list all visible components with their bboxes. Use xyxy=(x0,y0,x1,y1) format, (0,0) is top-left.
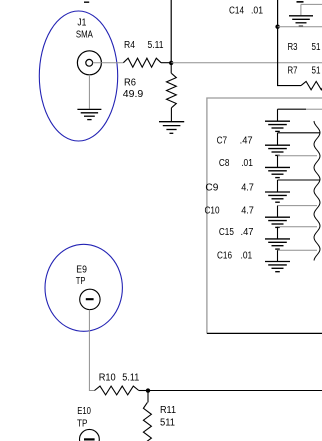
svg-text:.47: .47 xyxy=(240,136,253,147)
junction node top right xyxy=(275,25,279,29)
junction node at R4 xyxy=(169,61,173,65)
svg-text:E10: E10 xyxy=(77,406,91,417)
capacitor C8 xyxy=(278,156,318,168)
capacitor C15 label xyxy=(219,227,254,238)
svg-text:4.7: 4.7 xyxy=(241,206,254,217)
tear squiggle xyxy=(314,121,320,261)
resistor R10 label xyxy=(99,373,140,384)
resistor R6 label xyxy=(123,77,144,100)
resistor R11 xyxy=(143,391,151,441)
capacitor C9 xyxy=(278,180,320,192)
resistor R4 xyxy=(123,58,161,67)
ground C10 xyxy=(265,217,290,227)
capacitor C14 plate remnant xyxy=(297,1,304,3)
ground stub C14 xyxy=(300,4,302,15)
ground C16 xyxy=(265,262,290,272)
wire J1 to R4 xyxy=(93,62,124,64)
ground top of bank xyxy=(265,121,290,131)
ground C7 xyxy=(265,145,290,155)
capacitor C7 label xyxy=(217,136,253,147)
highlight ellipse around E9 xyxy=(45,244,122,331)
gray wire from node to right edge xyxy=(278,26,322,28)
svg-text:4.7: 4.7 xyxy=(241,182,254,193)
svg-text:5.11: 5.11 xyxy=(148,40,164,51)
svg-text:51: 51 xyxy=(312,42,321,53)
ground C8 xyxy=(265,167,290,177)
wire to R7 xyxy=(277,85,301,87)
wire E9 down xyxy=(89,310,94,391)
gray wire node to right edge xyxy=(171,62,322,64)
svg-text:511: 511 xyxy=(160,418,175,429)
svg-text:C14: C14 xyxy=(229,6,244,17)
ground at C14 xyxy=(289,16,313,26)
capacitor C14 label xyxy=(229,6,263,17)
ground C9 xyxy=(265,192,290,202)
svg-text:SMA: SMA xyxy=(76,30,93,41)
connector J1 symbol xyxy=(77,51,101,75)
resistor R7 xyxy=(301,81,322,89)
wire R10 to node xyxy=(139,390,148,392)
svg-text:C9: C9 xyxy=(205,182,218,193)
svg-text:.01: .01 xyxy=(251,6,263,17)
capacitor C16 label xyxy=(217,251,253,262)
svg-text:.47: .47 xyxy=(241,227,254,238)
wire bypass rail top xyxy=(278,109,322,121)
test point E10 label xyxy=(77,406,91,430)
svg-text:R11: R11 xyxy=(160,405,176,416)
svg-text:R10: R10 xyxy=(99,373,116,384)
junction node at R10 xyxy=(146,388,150,392)
resistor R3 label xyxy=(288,42,321,53)
ground C15 xyxy=(265,239,290,249)
wire R4 to node xyxy=(161,62,171,64)
wire J1 pin to ground stub xyxy=(88,75,90,109)
svg-text:51: 51 xyxy=(312,65,321,76)
svg-text:TP: TP xyxy=(77,419,88,430)
capacitor C7 xyxy=(278,133,320,145)
sheet block bottom edge xyxy=(207,332,322,334)
svg-text:C16: C16 xyxy=(217,251,232,262)
wire node to right edge xyxy=(148,390,322,392)
ground under J1 xyxy=(77,109,101,119)
capacitor C10 xyxy=(278,206,318,217)
ground under R6 xyxy=(159,122,184,134)
svg-text:TP: TP xyxy=(76,276,86,287)
svg-text:R6: R6 xyxy=(124,77,136,88)
capacitor C15 xyxy=(278,227,318,239)
svg-text:J1: J1 xyxy=(77,18,86,29)
highlight ellipse around J1 xyxy=(39,11,117,141)
svg-text:R7: R7 xyxy=(288,65,298,76)
text remnant above J1 xyxy=(84,1,89,3)
test point E9 symbol xyxy=(80,289,100,309)
svg-text:C15: C15 xyxy=(219,227,234,238)
svg-text:.01: .01 xyxy=(241,251,253,262)
svg-text:C10: C10 xyxy=(205,206,220,217)
capacitor C9 label xyxy=(205,182,254,193)
sheet block border xyxy=(207,98,322,333)
vertical wire x278 top xyxy=(277,0,279,86)
capacitor C8 label xyxy=(219,158,253,169)
gray wire top right xyxy=(301,3,322,5)
resistor R7 label xyxy=(288,65,321,76)
svg-text:R3: R3 xyxy=(288,42,298,53)
capacitor C16 xyxy=(278,250,318,261)
resistor R11 label xyxy=(160,405,176,429)
test point E9 label xyxy=(76,264,87,287)
svg-text:49.9: 49.9 xyxy=(123,89,144,100)
svg-text:R4: R4 xyxy=(124,40,135,51)
vertical wire from top to node xyxy=(170,0,172,63)
resistor R4 label xyxy=(124,40,164,51)
test point E10 symbol xyxy=(80,429,100,441)
svg-text:C8: C8 xyxy=(219,158,230,169)
svg-text:E9: E9 xyxy=(76,264,87,275)
svg-text:5.11: 5.11 xyxy=(122,373,139,384)
svg-text:.01: .01 xyxy=(241,158,253,169)
svg-text:C7: C7 xyxy=(217,136,228,147)
capacitor C10 label xyxy=(205,206,255,217)
resistor R10 xyxy=(95,386,139,395)
resistor R6 xyxy=(167,63,177,121)
connector J1 label xyxy=(76,18,93,41)
